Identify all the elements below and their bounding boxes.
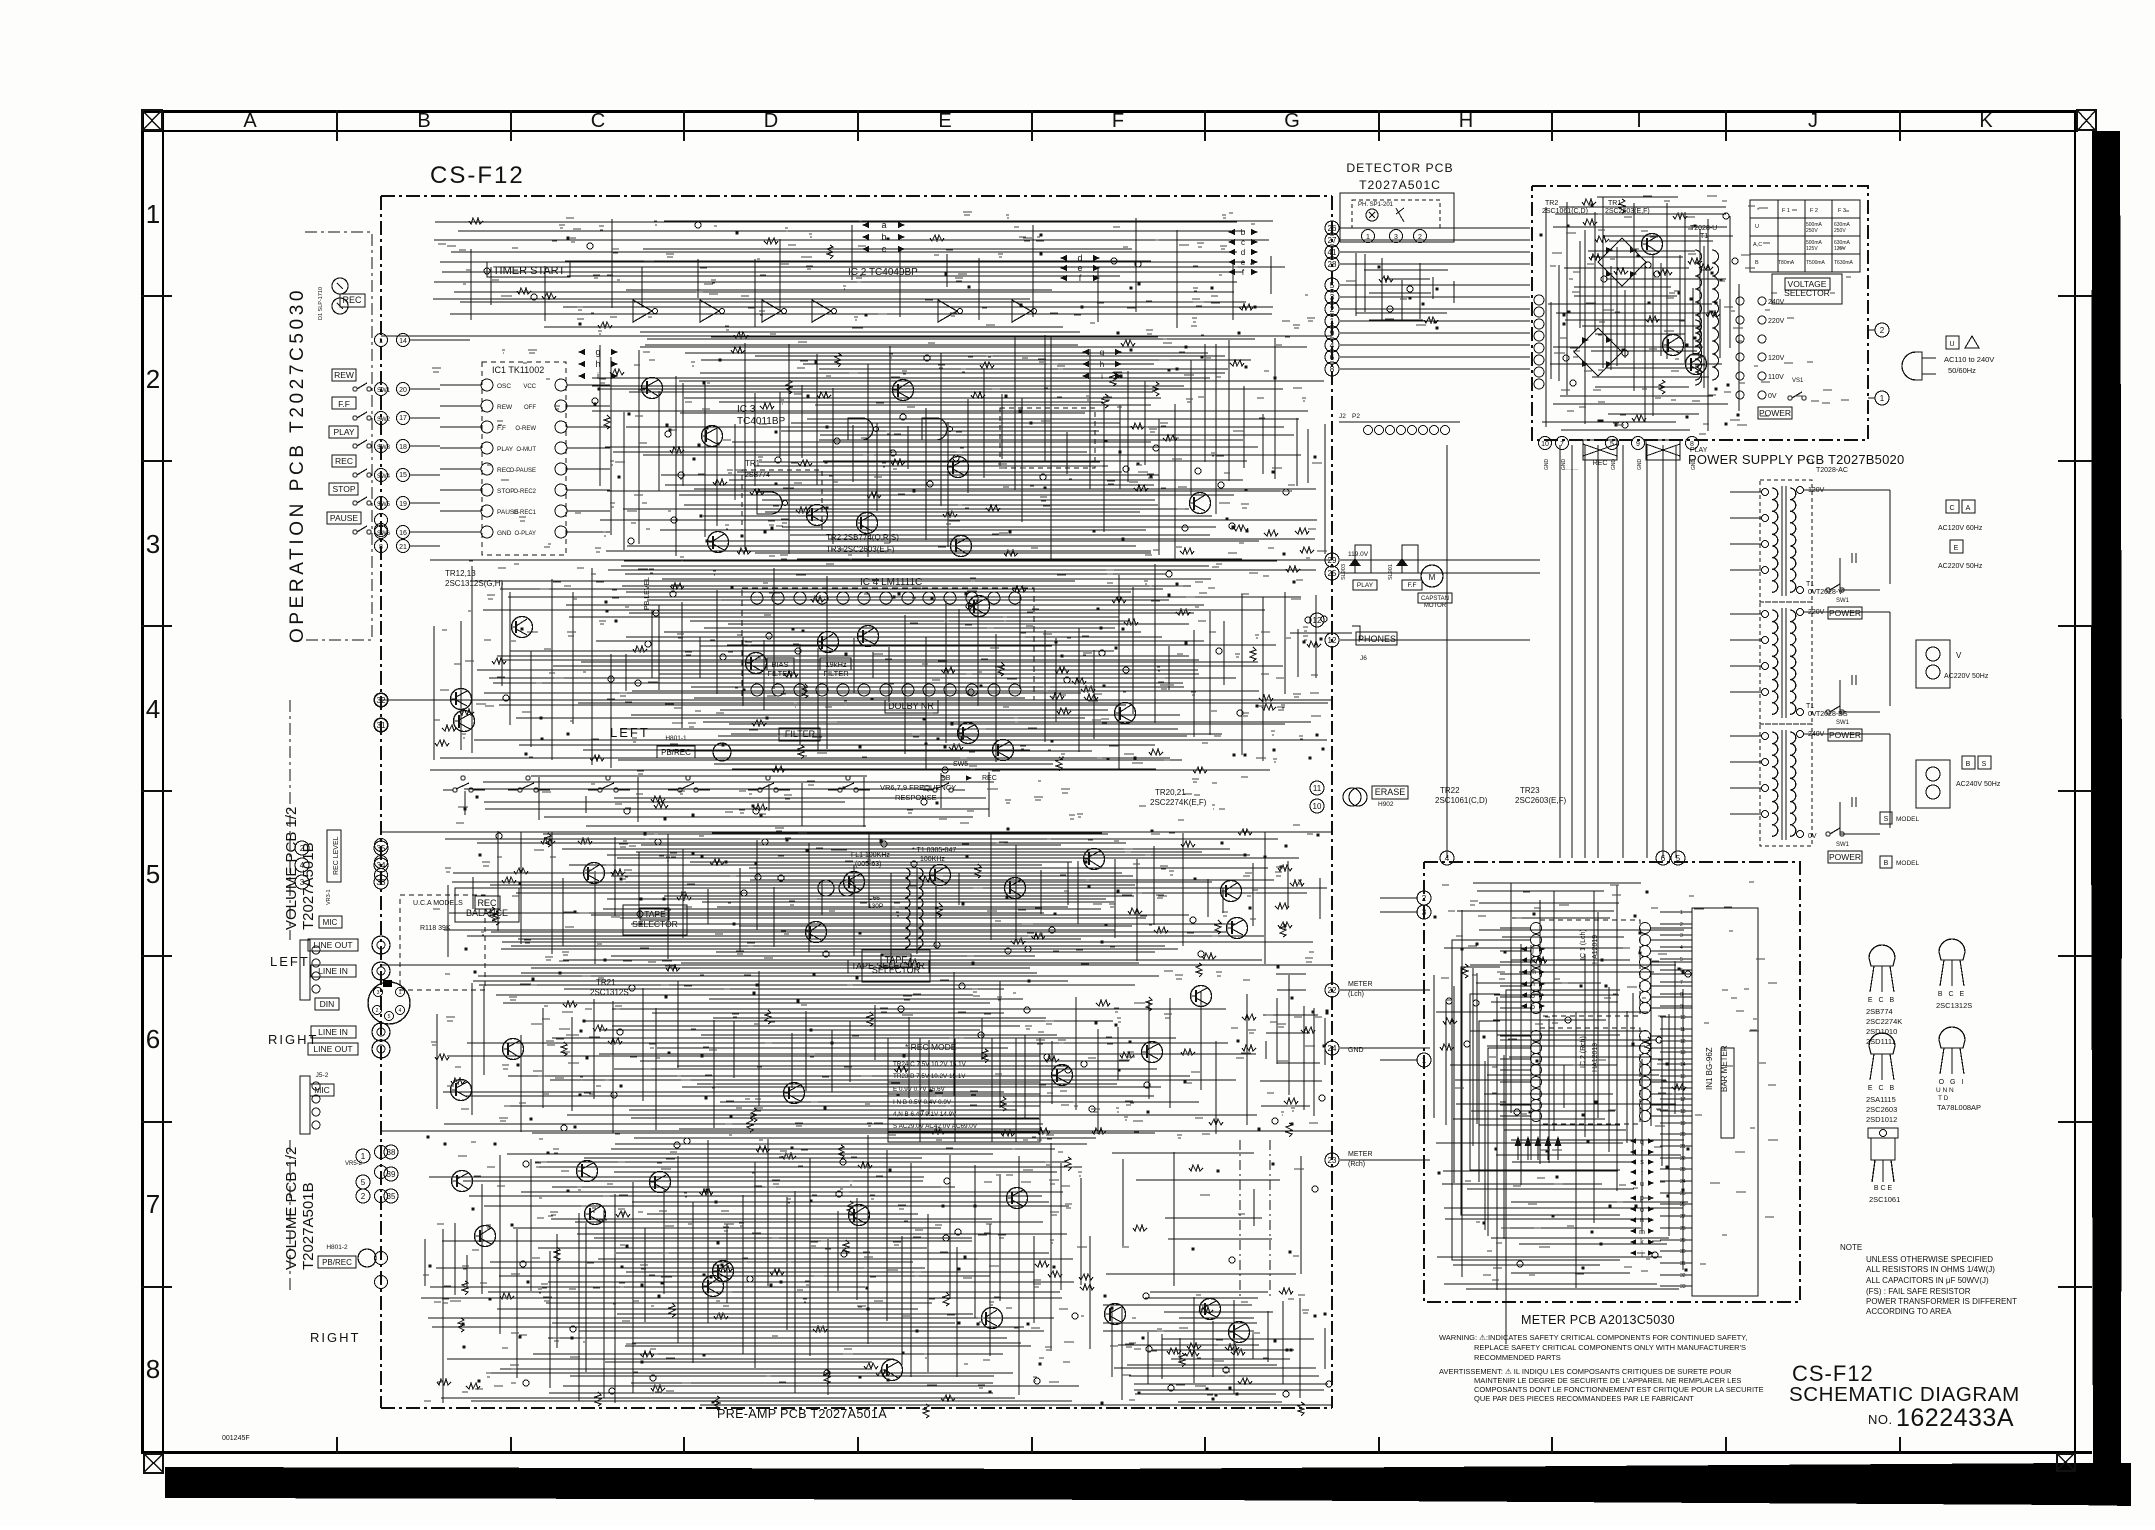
svg-text:(Rch): (Rch) [1348,1161,1365,1168]
svg-text:5: 5 [146,859,160,889]
svg-text:D1 SLP-1710: D1 SLP-1710 [318,287,324,320]
svg-text:POWER: POWER [1829,730,1861,740]
svg-text:2SC2603(E,F): 2SC2603(E,F) [1605,208,1650,215]
svg-text:POWER SUPPLY PCB T2027B5020: POWER SUPPLY PCB T2027B5020 [1688,452,1904,467]
svg-text:0V: 0V [1768,393,1777,400]
svg-text:15: 15 [399,472,407,479]
svg-text:6: 6 [379,501,383,508]
svg-text:2: 2 [1330,305,1335,314]
svg-text:O-REC2: O-REC2 [513,489,536,495]
svg-text:GND: GND [497,530,512,537]
svg-text:130P: 130P [868,903,883,910]
svg-text:J5-2: J5-2 [316,1072,329,1079]
svg-text:1: 1 [379,338,383,345]
svg-text:PRE-AMP PCB T2027A501A: PRE-AMP PCB T2027A501A [717,1407,887,1421]
svg-text:REC: REC [335,456,353,466]
svg-text:ACCORDING TO AREA: ACCORDING TO AREA [1866,1307,1952,1316]
svg-text:TR23: TR23 [1520,786,1540,795]
svg-text:T2027A501C: T2027A501C [1359,178,1441,192]
svg-text:PH. SP1-201: PH. SP1-201 [1358,202,1394,208]
svg-text:A: A [1966,505,1971,512]
svg-text:119.0V: 119.0V [1348,551,1369,558]
svg-text:C: C [1949,505,1954,512]
svg-text:3: 3 [300,878,305,887]
svg-text:PLAY: PLAY [333,427,354,437]
svg-text:QUE PAR DES PIECES RECOMMANDEE: QUE PAR DES PIECES RECOMMANDEES PAR LE F… [1474,1394,1694,1403]
svg-text:POWER: POWER [1829,608,1861,618]
svg-text:VS1: VS1 [1792,378,1804,384]
svg-text:120V: 120V [1768,355,1785,362]
svg-text:4: 4 [1680,945,1683,951]
svg-text:10: 10 [1541,441,1549,448]
svg-text:H902: H902 [1378,801,1394,808]
svg-text:U: U [1755,224,1759,230]
svg-text:IC1 TK11002: IC1 TK11002 [492,365,544,375]
svg-text:SW1: SW1 [1836,842,1850,848]
svg-text:TR24 C 7.5V 10.2V 15.1V: TR24 C 7.5V 10.2V 15.1V [893,1061,967,1068]
svg-text:U.C.A MODELS: U.C.A MODELS [413,900,463,907]
svg-text:E 0.9V 0.7V 15.6V: E 0.9V 0.7V 15.6V [893,1086,946,1093]
svg-text:DIN: DIN [320,999,335,1009]
svg-text:2SA1115: 2SA1115 [1866,1095,1896,1104]
svg-text:250V: 250V [1806,228,1818,234]
svg-text:U N N: U N N [1936,1087,1954,1094]
svg-text:2: 2 [1422,894,1427,903]
svg-text:T500mA: T500mA [1806,260,1826,266]
svg-text:d: d [1241,248,1245,257]
svg-text:1: 1 [146,199,160,229]
svg-text:NOTE: NOTE [1840,1243,1862,1252]
svg-text:1: 1 [361,1152,366,1161]
svg-text:TR21: TR21 [596,978,616,987]
svg-text:FILTER: FILTER [767,669,793,678]
svg-text:32: 32 [1680,1273,1686,1279]
svg-text:26: 26 [1328,224,1337,233]
svg-text:18: 18 [399,444,407,451]
svg-text:2SC2274K(E,F): 2SC2274K(E,F) [1150,798,1207,807]
svg-text:4: 4 [146,694,160,724]
svg-text:TA78L008AP: TA78L008AP [1937,1103,1981,1112]
svg-text:2: 2 [361,1192,366,1201]
svg-text:AC120V 60Hz: AC120V 60Hz [1938,525,1983,532]
svg-text:14: 14 [399,338,407,345]
svg-text:1: 1 [1880,394,1885,403]
svg-text:4: 4 [379,415,383,422]
svg-text:TAPE: TAPE [885,955,908,965]
svg-text:FL1 100KHz: FL1 100KHz [851,852,890,859]
svg-text:2: 2 [379,472,383,479]
svg-text:RECOMMENDED PARTS: RECOMMENDED PARTS [1474,1353,1561,1362]
svg-text:2SC1312S(G,H): 2SC1312S(G,H) [445,579,504,588]
svg-text:U: U [1949,341,1954,348]
svg-text:POWER: POWER [1829,852,1861,862]
svg-text:001245F: 001245F [222,1435,250,1442]
svg-text:G: G [1284,110,1300,132]
svg-text:IC 2 (Rch): IC 2 (Rch) [1580,1036,1587,1068]
svg-text:MAINTENIR LE DEGRE DE SECURIT: MAINTENIR LE DEGRE DE SECURITE DE L'APPA… [1474,1376,1741,1385]
svg-text:P.B: P.B [940,775,951,782]
svg-text:A: A [243,110,257,132]
svg-text:p: p [1531,1004,1535,1011]
svg-text:5: 5 [361,1178,366,1187]
svg-text:M: M [1429,573,1436,582]
svg-text:OSC: OSC [497,383,511,390]
svg-text:35: 35 [387,1192,396,1201]
svg-text:E C B: E C B [1868,997,1896,1004]
svg-text:k: k [1640,1239,1644,1246]
svg-text:AC110 to 240V: AC110 to 240V [1944,355,1994,364]
svg-text:3: 3 [377,990,380,996]
svg-text:7: 7 [1560,441,1564,448]
svg-text:O-REW: O-REW [515,426,536,432]
svg-text:H801-2: H801-2 [326,1244,348,1251]
svg-text:D: D [764,110,778,132]
svg-text:REPLACE SAFETY CRITICAL COMPON: REPLACE SAFETY CRITICAL COMPONENTS ONLY … [1474,1343,1746,1352]
svg-text:BALANCE: BALANCE [466,908,508,918]
svg-text:3: 3 [146,529,160,559]
svg-text:19kHz: 19kHz [825,660,847,669]
svg-text:TR2: TR2 [1545,200,1558,207]
svg-text:2SC1061(C,D): 2SC1061(C,D) [1542,208,1588,215]
svg-text:8: 8 [146,1354,160,1384]
svg-text:PB LEVEL: PB LEVEL [644,577,651,610]
svg-text:MOTOR: MOTOR [1424,603,1447,609]
svg-text:2SB774: 2SB774 [745,472,770,479]
svg-text:5: 5 [388,1014,391,1020]
svg-text:50/60Hz: 50/60Hz [1948,366,1976,375]
svg-text:2SB774: 2SB774 [1866,1007,1893,1016]
svg-text:1: 1 [399,990,402,996]
svg-text:21: 21 [399,544,407,551]
svg-text:5: 5 [379,444,383,451]
svg-text:VR5-2: VR5-2 [345,1161,363,1167]
svg-text:B C E: B C E [1938,991,1966,998]
svg-text:B: B [1755,260,1759,266]
svg-text:3: 3 [379,530,383,537]
svg-text:J6: J6 [1360,655,1367,662]
svg-text:TC4011BP: TC4011BP [737,416,786,427]
svg-text:1: 1 [1680,910,1683,916]
svg-text:T1: T1 [1700,233,1708,240]
svg-text:GND: GND [1637,459,1643,471]
svg-text:* REC MODE: * REC MODE [905,1042,957,1052]
svg-text:* T1 0305-047: * T1 0305-047 [912,847,956,854]
svg-text:1: 1 [1330,317,1335,326]
svg-text:20: 20 [399,387,407,394]
svg-text:4: 4 [1330,341,1335,350]
svg-text:PAUSE: PAUSE [330,513,359,523]
svg-text:CAPSTAN: CAPSTAN [1421,596,1449,602]
svg-text:STOP: STOP [333,484,356,494]
svg-text:GND: GND [1691,459,1697,471]
svg-text:J: J [1808,110,1818,132]
svg-text:(Lch): (Lch) [1348,991,1364,998]
svg-text:7: 7 [379,387,383,394]
svg-text:(FS) : FAIL SAFE RESISTOR: (FS) : FAIL SAFE RESISTOR [1866,1287,1971,1296]
svg-text:POWER: POWER [1759,408,1791,418]
svg-text:REC: REC [477,898,497,908]
svg-text:240V: 240V [1768,299,1785,306]
svg-text:2SD1010: 2SD1010 [1866,1027,1897,1036]
svg-text:2: 2 [1680,922,1683,928]
svg-text:A,C: A,C [1753,242,1762,248]
svg-text:P2: P2 [1352,413,1360,420]
svg-text:WARNING: ⚠:INDICATES SAFETY C: WARNING: ⚠:INDICATES SAFETY CRITICAL COM… [1439,1333,1747,1342]
svg-text:6: 6 [146,1024,160,1054]
svg-text:SL901: SL901 [1388,564,1394,580]
svg-text:ERASE: ERASE [1375,787,1406,797]
svg-text:OFF: OFF [524,405,536,411]
svg-text:RESPONSE: RESPONSE [895,793,937,802]
svg-text:T1: T1 [1806,459,1814,466]
svg-text:PLAY: PLAY [497,446,514,453]
svg-text:28: 28 [1328,260,1337,269]
svg-text:4,N B 6.4V 9.1V 14.9V: 4,N B 6.4V 9.1V 14.9V [893,1111,957,1118]
svg-text:33: 33 [1680,1284,1686,1290]
svg-text:10: 10 [1313,802,1322,811]
svg-text:0V: 0V [1808,833,1817,840]
svg-text:12: 12 [1313,616,1322,625]
svg-text:B: B [1884,860,1889,867]
svg-text:8: 8 [1690,441,1694,448]
svg-text:TR1: TR1 [1608,200,1621,207]
svg-text:T2028-V: T2028-V [1816,589,1843,596]
svg-text:NO.: NO. [1868,1412,1893,1427]
svg-text:e: e [1077,263,1082,273]
svg-text:O-PAUSE: O-PAUSE [509,468,536,474]
svg-text:CS-F12: CS-F12 [430,162,525,189]
svg-text:T1: T1 [1806,703,1814,710]
svg-text:F.F: F.F [338,399,350,409]
svg-text:AVERTISSEMENT: ⚠ IL INDIQU LE: AVERTISSEMENT: ⚠ IL INDIQU LES COMPOSANT… [1439,1367,1732,1376]
svg-text:UNLESS OTHERWISE SPECIFIED: UNLESS OTHERWISE SPECIFIED [1866,1255,1993,1264]
svg-text:c: c [1241,238,1245,247]
svg-text:O-REC1: O-REC1 [513,510,536,516]
svg-text:5: 5 [1610,441,1614,448]
svg-text:VOLUME PCB 1/2: VOLUME PCB 1/2 [283,807,300,930]
svg-text:110V: 110V [1768,374,1784,381]
svg-text:8: 8 [1330,365,1335,374]
svg-text:I: I [1636,110,1642,132]
svg-text:2: 2 [300,844,305,853]
svg-text:METER: METER [1348,1151,1373,1158]
svg-text:GND: GND [1561,459,1567,471]
svg-text:RIGHT: RIGHT [310,1330,360,1345]
svg-text:19: 19 [399,501,407,508]
svg-text:17: 17 [399,415,407,422]
svg-text:SELECTOR: SELECTOR [632,919,678,929]
svg-text:METER PCB A2013C5030: METER PCB A2013C5030 [1521,1313,1675,1327]
svg-text:FILTER: FILTER [785,729,816,739]
svg-text:IN1 BG-96Z: IN1 BG-96Z [1705,1047,1714,1090]
svg-text:LEFT: LEFT [610,725,650,740]
svg-text:TR22: TR22 [1440,786,1460,795]
svg-text:E: E [938,110,951,132]
svg-text:2SC1061: 2SC1061 [1869,1195,1900,1204]
svg-text:T2028-U: T2028-U [1690,225,1717,232]
svg-text:24: 24 [1328,1044,1337,1053]
svg-text:SELECTOR: SELECTOR [872,965,921,975]
svg-text:VR6,7,9 FREQUENCY: VR6,7,9 FREQUENCY [880,783,956,792]
svg-text:n: n [1531,981,1535,988]
svg-text:2SD1012: 2SD1012 [1866,1115,1897,1124]
svg-text:2SC2603: 2SC2603 [1866,1105,1897,1114]
svg-text:B C E: B C E [1874,1185,1893,1192]
svg-text:6: 6 [1330,353,1335,362]
svg-text:TR12,13: TR12,13 [445,569,476,578]
svg-text:OPERATION PCB T2027C5030: OPERATION PCB T2027C5030 [287,287,308,643]
svg-text:TR20,21: TR20,21 [1155,788,1186,797]
svg-text:100KHz: 100KHz [920,856,945,863]
svg-text:IC 1 (Lch): IC 1 (Lch) [1580,929,1587,960]
svg-text:SW5: SW5 [953,761,968,768]
svg-text:V: V [1956,651,1962,660]
svg-text:22: 22 [1328,986,1337,995]
svg-text:TR3 2SC2603(E,F): TR3 2SC2603(E,F) [826,545,895,554]
svg-text:35: 35 [377,844,386,853]
svg-text:SL903: SL903 [1341,564,1347,580]
svg-text:B: B [1966,761,1971,768]
svg-text:TR1: TR1 [745,459,761,468]
svg-text:2SC1312S: 2SC1312S [590,988,629,997]
svg-text:F.F: F.F [1407,582,1416,589]
svg-text:F.F: F.F [497,425,506,432]
svg-text:SW1: SW1 [1836,720,1850,726]
svg-text:AC220V 50Hz: AC220V 50Hz [1944,673,1989,680]
svg-text:2: 2 [1880,326,1885,335]
svg-text:11: 11 [1313,784,1322,793]
svg-text:REC LEVEL: REC LEVEL [333,836,340,875]
svg-text:LEFT: LEFT [270,954,310,969]
svg-text:12: 12 [1328,636,1337,645]
svg-text:REW: REW [497,404,513,411]
svg-text:2: 2 [146,364,160,394]
svg-text:2SC2274K: 2SC2274K [1866,1017,1902,1026]
svg-text:2SC2603(E,F): 2SC2603(E,F) [1515,796,1566,805]
svg-text:RIGHT: RIGHT [268,1032,318,1047]
svg-text:3: 3 [1422,908,1427,917]
svg-text:T2028-AC: T2028-AC [1816,467,1848,474]
svg-text:TAPE: TAPE [644,909,666,919]
svg-text:33: 33 [377,878,386,887]
svg-text:i: i [597,371,599,381]
svg-text:REC: REC [982,775,997,782]
svg-text:C66: C66 [868,895,880,902]
svg-text:PB/REC: PB/REC [661,748,691,757]
svg-text:3: 3 [1330,293,1335,302]
svg-text:AC220V 50Hz: AC220V 50Hz [1938,563,1983,570]
svg-text:T630mA: T630mA [1834,260,1854,266]
svg-text:ALL RESISTORS IN OHMS 1/4W(J): ALL RESISTORS IN OHMS 1/4W(J) [1866,1265,1995,1274]
svg-text:S: S [1982,761,1987,768]
svg-text:LINE IN: LINE IN [318,966,348,976]
svg-text:2SC1312S: 2SC1312S [1936,1001,1972,1010]
svg-text:O-PLAY: O-PLAY [514,531,536,537]
svg-text:COMPOSANTS DONT LE FONCTIONNE: COMPOSANTS DONT LE FONCTIONNEMENT EST CR… [1474,1385,1764,1394]
svg-text:VOLUME PCB 1/2: VOLUME PCB 1/2 [283,1147,300,1270]
svg-text:34: 34 [377,861,386,870]
svg-text:I N B 0.5V 0.4V 0.9V: I N B 0.5V 0.4V 0.9V [893,1099,952,1106]
svg-text:2SC1061(C,D): 2SC1061(C,D) [1435,796,1488,805]
svg-text:LINE OUT: LINE OUT [313,940,352,950]
svg-text:PLAY: PLAY [1357,582,1374,589]
svg-text:H: H [1459,110,1473,132]
svg-text:E: E [1954,545,1959,552]
svg-text:O G I: O G I [1939,1079,1966,1086]
svg-text:LINE OUT: LINE OUT [313,1044,352,1054]
svg-text:TR2 2SB774(Q,R,S): TR2 2SB774(Q,R,S) [826,533,899,542]
svg-text:REC: REC [1593,460,1608,467]
svg-text:LINE IN: LINE IN [318,1027,348,1037]
svg-text:7: 7 [1680,980,1683,986]
svg-text:MODEL: MODEL [1896,816,1920,823]
svg-text:39: 39 [387,1170,396,1179]
svg-text:F 1: F 1 [1782,208,1790,214]
svg-text:23: 23 [1328,1156,1337,1165]
svg-text:e: e [1241,258,1246,267]
svg-text:F 2: F 2 [1810,208,1818,214]
svg-text:4: 4 [399,1008,402,1014]
svg-text:T80mA: T80mA [1778,260,1795,266]
svg-text:1622433A: 1622433A [1896,1404,2014,1432]
svg-text:S AC29.0V AC42.0V AC69.0V: S AC29.0V AC42.0V AC69.0V [893,1123,978,1130]
svg-text:5: 5 [1330,281,1335,290]
svg-text:MODEL: MODEL [1896,860,1920,867]
svg-text:C: C [591,110,605,132]
svg-text:T D: T D [1938,1095,1949,1102]
svg-text:O-MUT: O-MUT [516,447,536,453]
svg-text:R118 39K: R118 39K [420,925,451,932]
svg-text:1: 1 [1422,1056,1427,1065]
svg-text:27: 27 [1328,236,1337,245]
svg-text:T2027A501B: T2027A501B [300,1182,317,1270]
svg-text:S: S [1884,816,1889,823]
svg-text:9: 9 [1330,329,1335,338]
svg-text:PHONES: PHONES [1358,634,1396,644]
svg-text:125V: 125V [1806,246,1818,252]
svg-text:1: 1 [1366,234,1370,241]
svg-text:POWER SUPPLY PCB T2027B5020: POWER SUPPLY PCB T2027B5020 [1562,469,1579,471]
svg-text:9: 9 [1636,441,1640,448]
svg-text:16: 16 [399,530,407,537]
svg-text:VR3-1: VR3-1 [326,889,332,905]
svg-text:DETECTOR PCB: DETECTOR PCB [1346,161,1453,175]
svg-text:2: 2 [1418,234,1422,241]
svg-text:4: 4 [300,861,305,870]
svg-text:GND: GND [1544,459,1550,471]
svg-text:PB/REC: PB/REC [322,1258,352,1267]
svg-text:SW1: SW1 [1836,598,1850,604]
svg-text:GND: GND [1611,459,1617,471]
svg-text:3: 3 [1680,933,1683,939]
svg-text:T1: T1 [1806,581,1814,588]
svg-text:SCHEMATIC DIAGRAM: SCHEMATIC DIAGRAM [1789,1383,2020,1406]
svg-text:250V: 250V [1834,228,1846,234]
svg-text:125V: 125V [1834,246,1846,252]
svg-text:AC240V 50Hz: AC240V 50Hz [1956,781,2001,788]
svg-text:POWER TRANSFORMER IS DIFFERENT: POWER TRANSFORMER IS DIFFERENT [1866,1297,2017,1306]
svg-text:3: 3 [1394,234,1398,241]
svg-text:VCC: VCC [523,384,536,390]
svg-text:7: 7 [146,1189,160,1219]
svg-text:41: 41 [1328,248,1337,257]
svg-text:F: F [1112,110,1124,132]
svg-text:REW: REW [334,370,354,380]
svg-text:MIC: MIC [323,918,338,927]
svg-text:K: K [1979,110,1993,132]
svg-text:B: B [417,110,430,132]
svg-text:STOP: STOP [497,488,515,495]
